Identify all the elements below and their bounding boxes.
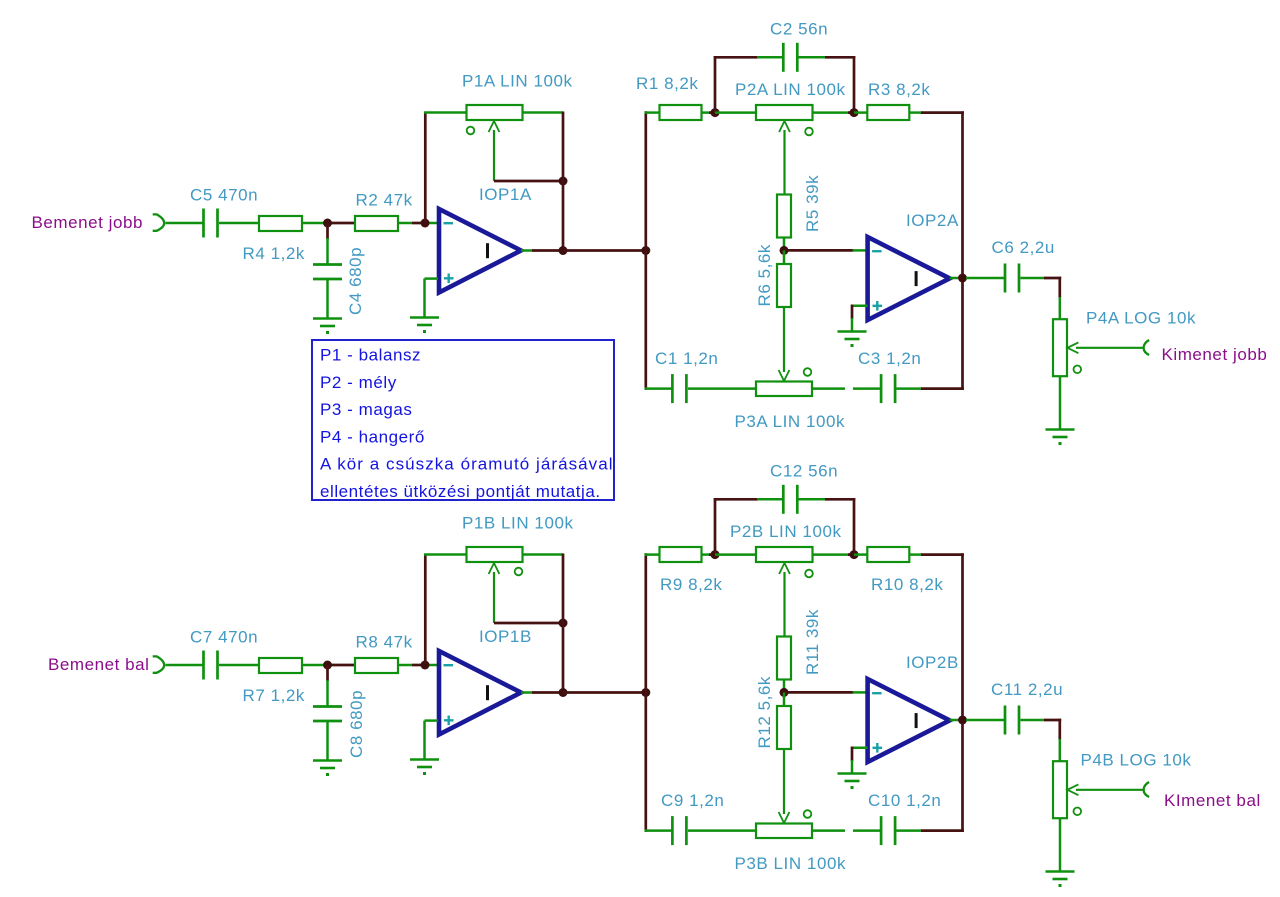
capacitor C7 bbox=[202, 651, 205, 680]
svg-text:Kimenet jobb: Kimenet jobb bbox=[1162, 345, 1268, 364]
wire bbox=[853, 691, 868, 694]
resistor R10 bbox=[867, 547, 909, 562]
junction node P2 left bbox=[711, 108, 720, 117]
output connector bbox=[1144, 340, 1150, 355]
wire bbox=[563, 691, 646, 694]
capacitor C9 bbox=[671, 816, 674, 845]
junction node op-amp1 output bbox=[559, 246, 568, 255]
resistor R3 bbox=[867, 105, 909, 120]
wire bbox=[848, 553, 854, 556]
wire bbox=[950, 277, 958, 280]
wire bbox=[326, 280, 329, 318]
wire bbox=[424, 553, 467, 556]
resistor R4 bbox=[259, 216, 302, 231]
wire bbox=[825, 56, 855, 59]
svg-text:P4 - hangerő: P4 - hangerő bbox=[320, 427, 425, 446]
wire bbox=[853, 56, 856, 113]
potentiometer P4A ccw mark bbox=[1074, 366, 1082, 374]
wire bbox=[532, 691, 563, 694]
wire bbox=[897, 387, 923, 390]
wire bbox=[424, 111, 467, 114]
capacitor C5 bbox=[202, 209, 205, 238]
wire bbox=[563, 249, 646, 252]
wire bbox=[714, 56, 717, 113]
input connector bbox=[153, 656, 165, 672]
ground bbox=[1046, 428, 1075, 431]
capacitor C2 bbox=[782, 43, 785, 72]
wire bbox=[425, 664, 438, 667]
wire bbox=[398, 664, 412, 667]
wire bbox=[702, 111, 710, 114]
wire bbox=[494, 622, 563, 625]
potentiometer P3B bbox=[756, 824, 812, 839]
wire bbox=[1059, 739, 1062, 761]
svg-text:C8 680p: C8 680p bbox=[347, 690, 366, 758]
wire bbox=[783, 307, 785, 372]
svg-text:IOP2B: IOP2B bbox=[906, 653, 959, 672]
svg-text:P1B LIN 100k: P1B LIN 100k bbox=[462, 514, 574, 533]
wire bbox=[688, 829, 756, 832]
svg-text:IOP1B: IOP1B bbox=[479, 627, 532, 646]
input connector bbox=[153, 214, 165, 230]
capacitor C8 bbox=[313, 705, 342, 708]
svg-text:P4B LOG 10k: P4B LOG 10k bbox=[1081, 751, 1192, 770]
wire bbox=[757, 56, 783, 59]
wire bbox=[853, 387, 881, 390]
capacitor C6 bbox=[1004, 264, 1007, 293]
capacitor C4 bbox=[313, 263, 342, 266]
svg-text:C2 56n: C2 56n bbox=[770, 20, 828, 39]
svg-text:C1 1,2n: C1 1,2n bbox=[655, 349, 718, 368]
junction node R5-R6 bbox=[780, 688, 789, 697]
wire bbox=[412, 664, 426, 667]
potentiometer P3A ccw mark bbox=[804, 368, 812, 376]
wire bbox=[532, 249, 563, 252]
svg-text:P2A LIN 100k: P2A LIN 100k bbox=[735, 80, 846, 99]
wire bbox=[853, 498, 856, 555]
wire bbox=[812, 387, 845, 390]
wire bbox=[783, 250, 786, 264]
op-amp IOP2B bbox=[868, 679, 950, 762]
wire bbox=[423, 721, 426, 759]
wire bbox=[302, 664, 328, 667]
wire bbox=[328, 664, 356, 667]
wire bbox=[783, 692, 786, 706]
resistor R1 bbox=[660, 105, 702, 120]
junction node op-amp2 output bbox=[958, 716, 967, 725]
potentiometer P4B ccw mark bbox=[1074, 808, 1082, 816]
junction node P2 right bbox=[850, 550, 859, 559]
wire bbox=[853, 829, 881, 832]
wire bbox=[166, 664, 205, 667]
ground bbox=[838, 330, 867, 333]
svg-text:ellentétes ütközési pontját mu: ellentétes ütközési pontját mutatja. bbox=[320, 482, 601, 501]
wire bbox=[644, 111, 647, 390]
wire bbox=[909, 553, 922, 556]
resistor R11 bbox=[777, 637, 791, 680]
svg-text:P4A LOG 10k: P4A LOG 10k bbox=[1086, 309, 1196, 328]
svg-text:R1 8,2k: R1 8,2k bbox=[636, 74, 698, 93]
wire bbox=[799, 56, 827, 59]
wire bbox=[709, 111, 715, 114]
wire bbox=[966, 277, 1005, 280]
resistor R6 bbox=[777, 264, 791, 307]
potentiometer P2A ccw mark bbox=[805, 128, 813, 136]
wire bbox=[813, 111, 850, 114]
wire bbox=[950, 719, 958, 722]
wire bbox=[1044, 719, 1061, 722]
svg-text:C11 2,2u: C11 2,2u bbox=[991, 680, 1063, 699]
wire bbox=[921, 829, 964, 832]
wire bbox=[219, 222, 259, 225]
wire bbox=[1058, 719, 1061, 740]
wire bbox=[494, 180, 563, 183]
capacitor C10 bbox=[880, 816, 883, 845]
junction node bbox=[323, 661, 332, 670]
legend box bbox=[312, 340, 614, 500]
wire bbox=[854, 111, 867, 114]
svg-text:Bemenet jobb: Bemenet jobb bbox=[32, 213, 144, 232]
wire bbox=[1058, 277, 1061, 298]
svg-text:R2 47k: R2 47k bbox=[356, 191, 413, 210]
wire bbox=[813, 553, 850, 556]
wire bbox=[784, 249, 854, 252]
potentiometer P1B bbox=[467, 547, 523, 562]
potentiometer P4B wiper bbox=[1067, 784, 1078, 795]
wire bbox=[757, 498, 783, 501]
wire bbox=[897, 829, 923, 832]
potentiometer P1A ccw mark bbox=[467, 127, 475, 135]
wire bbox=[784, 691, 854, 694]
svg-text:R8 47k: R8 47k bbox=[356, 633, 413, 652]
potentiometer P2B bbox=[756, 547, 813, 562]
wire bbox=[854, 553, 867, 556]
resistor R9 bbox=[660, 547, 702, 562]
capacitor C1 bbox=[671, 374, 674, 403]
capacitor C11 bbox=[1004, 706, 1007, 735]
potentiometer P4A wiper bbox=[1067, 342, 1078, 353]
potentiometer P2B ccw mark bbox=[805, 570, 813, 578]
wire bbox=[714, 498, 758, 501]
wire bbox=[688, 387, 756, 390]
wire bbox=[921, 111, 964, 114]
wire bbox=[783, 238, 786, 251]
potentiometer P2B wiper bbox=[779, 563, 790, 574]
wire bbox=[1021, 719, 1046, 722]
potentiometer P4A bbox=[1053, 319, 1067, 376]
potentiometer P3B wiper arrow bbox=[779, 812, 790, 823]
wire bbox=[562, 554, 565, 693]
ground bbox=[313, 759, 342, 762]
wire bbox=[1059, 297, 1062, 319]
wire bbox=[425, 222, 438, 225]
resistor R5 bbox=[777, 195, 791, 238]
wire bbox=[219, 664, 259, 667]
wire bbox=[398, 222, 412, 225]
junction node op-amp inverting input bbox=[421, 661, 430, 670]
resistor R2 bbox=[355, 216, 398, 231]
wire bbox=[326, 223, 329, 239]
potentiometer P1B wiper bbox=[489, 563, 500, 574]
potentiometer P3A wiper arrow bbox=[779, 370, 790, 381]
svg-text:IOP2A: IOP2A bbox=[906, 211, 959, 230]
svg-text:Bemenet bal: Bemenet bal bbox=[48, 655, 150, 674]
wire bbox=[715, 111, 756, 114]
wire bbox=[645, 829, 673, 832]
wire bbox=[425, 719, 439, 722]
wire bbox=[851, 747, 854, 762]
svg-text:R6 5,6k: R6 5,6k bbox=[755, 244, 774, 306]
wire bbox=[714, 56, 758, 59]
capacitor C3 bbox=[880, 374, 883, 403]
wire bbox=[852, 305, 868, 308]
svg-text:P3 - magas: P3 - magas bbox=[320, 400, 412, 419]
wire bbox=[961, 553, 964, 832]
svg-text:R7 1,2k: R7 1,2k bbox=[243, 686, 305, 705]
junction node P2 right bbox=[850, 108, 859, 117]
wire bbox=[921, 387, 964, 390]
wire bbox=[644, 553, 647, 832]
wire bbox=[423, 279, 426, 317]
svg-text:P1 - balansz: P1 - balansz bbox=[320, 346, 421, 365]
wire bbox=[709, 553, 715, 556]
potentiometer P2A bbox=[756, 105, 813, 120]
junction node op-amp2 output bbox=[958, 274, 967, 283]
capacitor C12 bbox=[782, 485, 785, 514]
wire bbox=[523, 553, 564, 556]
wire bbox=[326, 665, 329, 681]
resistor R7 bbox=[259, 658, 302, 673]
svg-text:P3B LIN 100k: P3B LIN 100k bbox=[735, 854, 847, 873]
wire bbox=[521, 691, 533, 694]
svg-text:P1A LIN 100k: P1A LIN 100k bbox=[462, 72, 573, 91]
op-amp IOP1A bbox=[439, 209, 521, 293]
wire bbox=[166, 222, 205, 225]
junction node R5-R6 bbox=[780, 246, 789, 255]
svg-text:R11 39k: R11 39k bbox=[803, 609, 822, 675]
svg-text:R12 5,6k: R12 5,6k bbox=[755, 676, 774, 748]
potentiometer P1A wiper bbox=[489, 121, 500, 132]
wire bbox=[562, 112, 565, 251]
svg-text:R5 39k: R5 39k bbox=[803, 175, 822, 232]
wire bbox=[523, 111, 564, 114]
wire bbox=[424, 113, 427, 223]
resistor R8 bbox=[355, 658, 398, 673]
resistor R12 bbox=[777, 706, 791, 749]
svg-text:R10 8,2k: R10 8,2k bbox=[871, 575, 943, 594]
svg-text:R4 1,2k: R4 1,2k bbox=[243, 244, 305, 263]
junction node bus A bbox=[641, 246, 650, 255]
junction node feedback bbox=[559, 619, 568, 628]
junction node bus A bbox=[641, 688, 650, 697]
wire bbox=[783, 749, 785, 814]
junction node feedback bbox=[559, 177, 568, 186]
wire bbox=[715, 553, 756, 556]
wire bbox=[328, 222, 356, 225]
wire bbox=[1044, 277, 1061, 280]
potentiometer P2A wiper bbox=[779, 121, 790, 132]
svg-text:R3 8,2k: R3 8,2k bbox=[868, 80, 930, 99]
wire bbox=[851, 760, 854, 773]
wire bbox=[799, 498, 827, 501]
wire bbox=[521, 249, 533, 252]
wire bbox=[1021, 277, 1046, 280]
svg-text:C3 1,2n: C3 1,2n bbox=[858, 349, 921, 368]
svg-text:C9 1,2n: C9 1,2n bbox=[661, 791, 724, 810]
potentiometer P1B ccw mark bbox=[515, 568, 523, 576]
wire bbox=[783, 680, 786, 693]
output connector bbox=[1144, 782, 1150, 797]
wire bbox=[851, 305, 854, 320]
wire bbox=[412, 222, 426, 225]
ground bbox=[838, 772, 867, 775]
wire bbox=[853, 249, 868, 252]
svg-text:P3A LIN 100k: P3A LIN 100k bbox=[735, 412, 846, 431]
wire bbox=[326, 722, 329, 760]
wire bbox=[1059, 376, 1062, 429]
wire bbox=[645, 111, 660, 114]
junction node op-amp1 output bbox=[559, 688, 568, 697]
ground bbox=[313, 317, 342, 320]
op-amp IOP1B bbox=[439, 651, 521, 735]
wire bbox=[645, 553, 660, 556]
junction node op-amp inverting input bbox=[421, 219, 430, 228]
wire bbox=[852, 747, 868, 750]
svg-text:C5 470n: C5 470n bbox=[190, 186, 258, 205]
wire bbox=[702, 553, 710, 556]
wire bbox=[326, 680, 329, 707]
wire bbox=[425, 277, 439, 280]
potentiometer P3A bbox=[756, 382, 812, 397]
wire bbox=[302, 222, 328, 225]
op-amp IOP2A bbox=[868, 237, 950, 320]
svg-text:IOP1A: IOP1A bbox=[479, 185, 532, 204]
svg-text:C4 680p: C4 680p bbox=[346, 247, 365, 315]
svg-text:C6 2,2u: C6 2,2u bbox=[992, 238, 1055, 257]
svg-text:P2 - mély: P2 - mély bbox=[320, 373, 397, 392]
svg-text:C12 56n: C12 56n bbox=[770, 462, 838, 481]
wire bbox=[909, 111, 922, 114]
wire bbox=[812, 829, 845, 832]
wire bbox=[921, 553, 964, 556]
wire bbox=[848, 111, 854, 114]
svg-text:C10 1,2n: C10 1,2n bbox=[868, 791, 941, 810]
junction node P2 left bbox=[711, 550, 720, 559]
potentiometer P4B bbox=[1053, 761, 1067, 818]
potentiometer P1A bbox=[467, 105, 523, 120]
wire bbox=[961, 111, 964, 390]
ground bbox=[410, 758, 439, 761]
wire bbox=[326, 238, 329, 265]
wire bbox=[714, 498, 717, 555]
wire bbox=[645, 387, 673, 390]
junction node bbox=[323, 219, 332, 228]
wire bbox=[1059, 818, 1062, 871]
svg-text:A kör a csúszka óramutó járásá: A kör a csúszka óramutó járásával bbox=[320, 455, 614, 474]
svg-text:R9 8,2k: R9 8,2k bbox=[660, 575, 722, 594]
wire bbox=[424, 555, 427, 665]
wire bbox=[825, 498, 855, 501]
svg-text:KImenet bal: KImenet bal bbox=[1164, 791, 1261, 810]
potentiometer P3B ccw mark bbox=[804, 810, 812, 818]
svg-text:P2B LIN 100k: P2B LIN 100k bbox=[730, 522, 842, 541]
wire bbox=[966, 719, 1005, 722]
svg-text:C7 470n: C7 470n bbox=[190, 628, 258, 647]
wire bbox=[851, 318, 854, 331]
ground bbox=[1046, 870, 1075, 873]
ground bbox=[410, 316, 439, 319]
